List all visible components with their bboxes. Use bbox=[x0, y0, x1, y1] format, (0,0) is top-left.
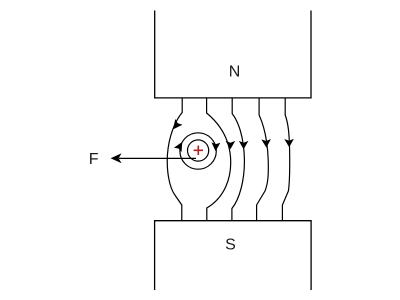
wire field circle (outer, around conductor) bbox=[180, 133, 216, 169]
conductor wire cross-section (inner circle) bbox=[188, 140, 209, 161]
svg-text:N: N bbox=[229, 64, 241, 81]
field line 5 (rightmost) bbox=[282, 98, 289, 221]
field line 3 bbox=[232, 98, 245, 221]
arrowhead on field line 4 bbox=[261, 139, 271, 148]
arrowhead right on wire field circle (clockwise, pointing down-right) bbox=[212, 142, 221, 151]
svg-text:F: F bbox=[89, 151, 99, 168]
svg-text:S: S bbox=[225, 237, 236, 254]
force arrow F (pointing left) bbox=[119, 157, 196, 159]
arrowhead on field line 2 bbox=[226, 141, 236, 149]
magnet N pole (top, open-top rectangle) bbox=[155, 11, 311, 98]
arrowhead left on wire field circle (clockwise, pointing up) bbox=[174, 142, 182, 152]
field line 1 (leftmost, bulges left around wire) bbox=[167, 98, 182, 221]
arrowhead on field line 1 bbox=[173, 119, 183, 129]
field line 2 (bulges right close around wire) bbox=[207, 98, 231, 221]
arrowhead on field line 5 bbox=[284, 139, 294, 148]
arrowhead on field line 3 bbox=[239, 141, 249, 149]
magnet S pole (bottom, open-bottom rectangle) bbox=[155, 221, 312, 290]
current into page symbol + (red) bbox=[194, 146, 203, 155]
field line 4 bbox=[257, 98, 269, 221]
force arrowhead bbox=[111, 153, 122, 163]
